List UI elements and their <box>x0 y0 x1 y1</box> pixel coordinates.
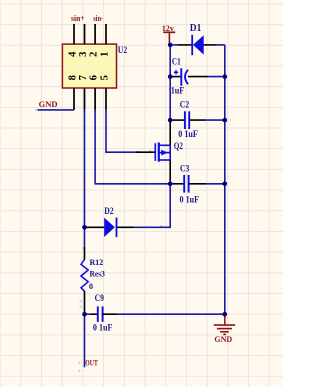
svg-text:U2: U2 <box>118 45 127 55</box>
ground symbol GND <box>224 314 226 325</box>
resistor R12 top pin (black) <box>84 247 86 259</box>
svg-text:sin-: sin- <box>93 14 103 23</box>
wire 12v node to D1 <box>170 44 177 46</box>
pin 4 (top) <box>73 24 75 44</box>
wire pin6 to C3 left node <box>95 110 170 184</box>
svg-text:1: 1 <box>100 52 111 57</box>
faint endpoint markers <box>35 24 220 372</box>
svg-text:2: 2 <box>88 52 99 57</box>
svg-text:C3: C3 <box>180 164 189 174</box>
svg-text:1uF: 1uF <box>171 85 184 96</box>
svg-text:Q2: Q2 <box>174 141 183 151</box>
junction node C3 left <box>168 182 173 187</box>
diode D1 (points left) <box>191 35 193 55</box>
right rail wire <box>224 45 226 314</box>
capacitor C1 body and pins <box>170 76 173 78</box>
svg-text:D2: D2 <box>104 206 113 216</box>
svg-text:R12: R12 <box>90 258 104 267</box>
svg-text:6: 6 <box>88 75 99 80</box>
junction node 12v/D1 <box>168 43 173 48</box>
capacitor C3 body and pins <box>170 183 173 185</box>
svg-text:0: 0 <box>89 282 93 291</box>
Q2 gate pin (black) <box>136 151 155 153</box>
IC U2 body <box>62 44 116 88</box>
transistor Q2 symbol body <box>154 143 156 161</box>
svg-text:7: 7 <box>78 75 89 80</box>
svg-text:Res3: Res3 <box>90 269 106 278</box>
wire OUT stub <box>84 314 86 367</box>
junction node C2 left <box>168 118 173 123</box>
left column wire (Q2 source to D2 row) <box>134 181 170 228</box>
diode D2 body and pins (points right) <box>85 226 105 228</box>
left column wire (12v to Q2 drain) <box>169 45 171 120</box>
pin 2 (top) <box>94 24 96 44</box>
wire C9 to ground node <box>117 313 225 315</box>
svg-text:C1: C1 <box>172 57 181 67</box>
wire pin5 to Q2 gate <box>106 110 140 152</box>
junction node C2 right <box>223 118 228 123</box>
pin 6 (bottom) <box>94 88 96 110</box>
junction node ground <box>223 312 228 317</box>
junction node D2/R12 <box>82 225 87 230</box>
pin 1 (top) <box>105 24 107 44</box>
svg-text:0 1uF: 0 1uF <box>93 322 113 333</box>
svg-text:sin+: sin+ <box>71 14 85 23</box>
svg-text:0 1uF: 0 1uF <box>178 129 198 140</box>
junction node C1 right <box>223 74 228 79</box>
wire D1 to right rail <box>217 44 225 46</box>
capacitor C2 body and pins <box>170 119 173 121</box>
D1 cathode/anode pins (black) <box>178 44 193 46</box>
wire GND to pin 8 <box>38 109 75 111</box>
svg-text:OUT: OUT <box>85 359 98 368</box>
pin 8 (bottom) <box>73 88 75 110</box>
svg-text:C2: C2 <box>180 100 189 110</box>
svg-text:8: 8 <box>68 75 79 80</box>
pin 3 (top) <box>84 24 86 44</box>
wire pin7 column down to D2 node and R12 <box>84 110 86 248</box>
svg-text:GND: GND <box>39 99 58 109</box>
svg-text:5: 5 <box>100 75 111 80</box>
svg-text:4: 4 <box>68 51 79 57</box>
junction node C3 right <box>223 182 228 187</box>
Q2 source pin (black) <box>169 160 171 181</box>
resistor R12 <box>81 259 88 291</box>
pin 5 (bottom) <box>105 88 107 110</box>
resistor R12 bottom pin (black) <box>84 291 86 313</box>
svg-text:C9: C9 <box>95 293 104 303</box>
svg-text:GND: GND <box>214 335 232 344</box>
pin 7 (bottom) <box>84 88 86 110</box>
capacitor C9 body and pins <box>85 313 92 315</box>
svg-text:3: 3 <box>78 52 89 57</box>
Q2 drain pin (black) <box>169 121 171 146</box>
svg-text:0 1uF: 0 1uF <box>180 194 200 205</box>
junction node C9/OUT <box>82 312 87 317</box>
junction node C1 left <box>168 74 173 79</box>
svg-text:D1: D1 <box>190 22 202 34</box>
